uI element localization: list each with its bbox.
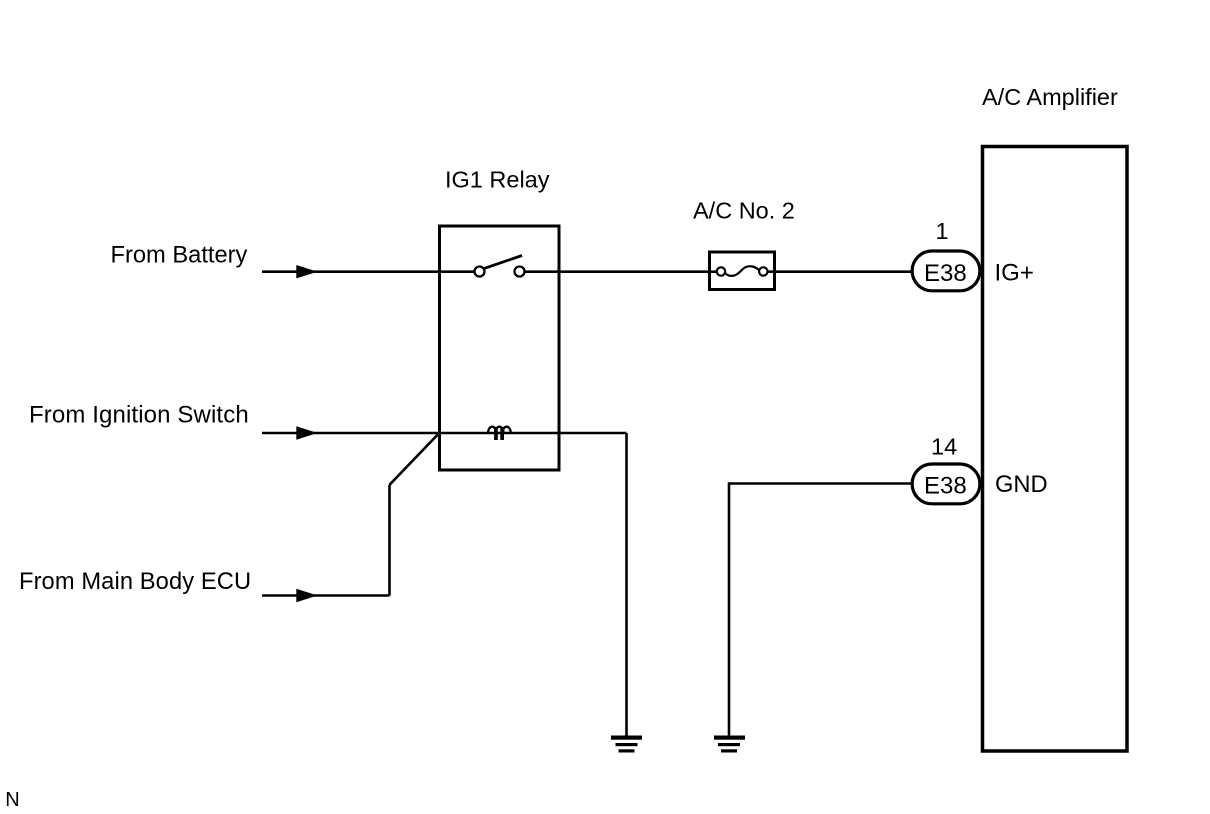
fuse element right circle — [759, 267, 767, 275]
svg-text:From Battery: From Battery — [111, 243, 248, 269]
relay switch lever — [484, 256, 523, 269]
fuse element s-curve — [725, 266, 759, 276]
svg-text:GND: GND — [995, 472, 1048, 498]
arrow on From Ignition Switch wire — [296, 426, 317, 439]
wire: From Battery to relay switch — [262, 270, 474, 273]
svg-text:From Ignition Switch: From Ignition Switch — [29, 402, 249, 429]
wire: From Main Body ECU horizontal — [262, 594, 390, 597]
wire: From Ignition Switch to relay coil — [262, 432, 627, 435]
svg-text:14: 14 — [931, 434, 957, 460]
wire: diagonal to relay coil node — [390, 434, 439, 485]
wire: relay coil to ground (horizontal then vertical) — [625, 433, 628, 736]
svg-text:E38: E38 — [924, 260, 967, 287]
svg-text:From Main Body ECU: From Main Body ECU — [19, 569, 251, 595]
connector E38 pin 1 oval — [912, 251, 980, 291]
ground symbol for GND wire — [714, 736, 745, 740]
relay coil L1 — [488, 427, 496, 433]
arrow on From Battery wire — [296, 265, 317, 278]
svg-text:A/C Amplifier: A/C Amplifier — [982, 84, 1118, 110]
svg-text:IG+: IG+ — [995, 259, 1034, 286]
wire: relay switch to fuse — [525, 270, 717, 273]
svg-text:1: 1 — [936, 218, 949, 244]
relay switch contact left circle — [475, 267, 485, 277]
fuse element left circle — [717, 267, 725, 275]
relay box IG1 — [440, 226, 560, 470]
fuse box A/C No. 2 — [710, 252, 775, 290]
connector E38 pin 14 oval — [912, 464, 980, 504]
relay switch contact right circle — [515, 267, 525, 277]
arrow on From Main Body ECU wire — [296, 589, 317, 602]
svg-text:E38: E38 — [924, 472, 967, 499]
wire: fuse to connector E38 pin 1 — [768, 270, 912, 273]
svg-text:N: N — [5, 789, 19, 811]
ground symbol for relay coil — [611, 736, 642, 740]
wire: GND pin to ground (horizontal then vertical) — [729, 484, 911, 737]
svg-text:A/C No. 2: A/C No. 2 — [693, 198, 795, 224]
svg-text:IG1 Relay: IG1 Relay — [445, 167, 550, 193]
A/C Amplifier box U1 — [983, 147, 1128, 752]
wire: vertical riser from ECU wire — [388, 485, 391, 596]
